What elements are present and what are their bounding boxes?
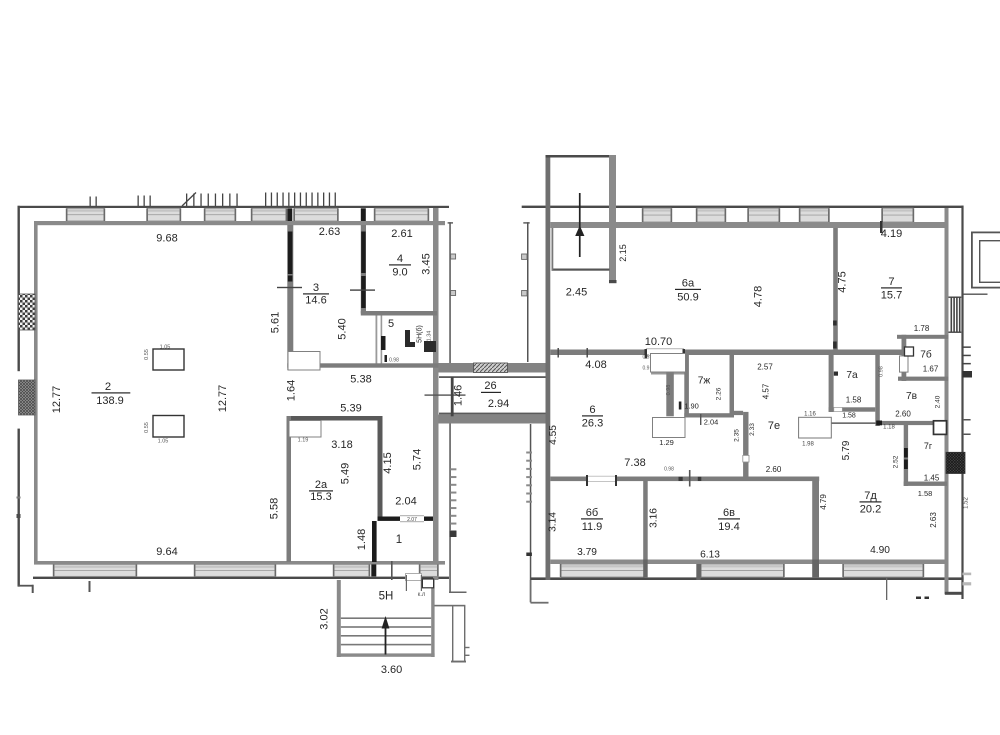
svg-text:2.94: 2.94 <box>488 398 509 410</box>
svg-text:1.46: 1.46 <box>452 385 464 406</box>
svg-text:4.79: 4.79 <box>819 494 828 510</box>
svg-text:7.38: 7.38 <box>624 457 645 469</box>
svg-text:к.л: к.л <box>418 592 426 598</box>
svg-text:5.39: 5.39 <box>340 403 361 415</box>
svg-text:4.90: 4.90 <box>870 545 890 556</box>
svg-text:0.98: 0.98 <box>664 467 674 473</box>
svg-text:7д: 7д <box>864 490 877 502</box>
svg-text:2.57: 2.57 <box>757 363 773 372</box>
svg-text:12.77: 12.77 <box>51 386 63 414</box>
svg-text:0.9: 0.9 <box>643 366 650 372</box>
svg-text:2.60: 2.60 <box>766 465 782 474</box>
svg-text:3.18: 3.18 <box>331 439 352 451</box>
svg-text:1.67: 1.67 <box>923 365 939 374</box>
svg-text:7е: 7е <box>768 420 780 432</box>
svg-text:9.68: 9.68 <box>156 233 177 245</box>
svg-text:1.18: 1.18 <box>883 424 895 430</box>
svg-text:1: 1 <box>396 534 402 546</box>
svg-text:14.6: 14.6 <box>305 295 326 307</box>
svg-text:7: 7 <box>888 276 894 288</box>
svg-text:7г: 7г <box>924 441 933 451</box>
svg-text:1.19: 1.19 <box>298 438 309 444</box>
svg-text:5Н: 5Н <box>379 591 394 603</box>
svg-text:2.15: 2.15 <box>618 244 628 262</box>
svg-text:1.58: 1.58 <box>918 489 933 498</box>
svg-text:20.2: 20.2 <box>860 504 881 516</box>
svg-text:3.02: 3.02 <box>319 608 331 629</box>
svg-text:2.63: 2.63 <box>929 512 938 528</box>
svg-text:6б: 6б <box>586 507 598 519</box>
svg-text:1.34: 1.34 <box>427 331 433 342</box>
svg-text:15.3: 15.3 <box>310 491 331 503</box>
svg-text:1.78: 1.78 <box>914 324 930 333</box>
svg-text:5.58: 5.58 <box>269 498 281 519</box>
svg-text:5.79: 5.79 <box>841 440 852 460</box>
svg-text:4.57: 4.57 <box>762 383 771 399</box>
svg-text:19.4: 19.4 <box>718 521 739 533</box>
svg-text:0.5: 0.5 <box>643 355 650 361</box>
svg-text:2.35: 2.35 <box>734 429 741 442</box>
svg-text:10.70: 10.70 <box>645 336 673 348</box>
svg-text:3.60: 3.60 <box>381 664 402 676</box>
svg-text:4.75: 4.75 <box>837 271 849 292</box>
svg-text:2: 2 <box>105 381 111 393</box>
svg-text:2.60: 2.60 <box>895 410 911 419</box>
svg-text:5.40: 5.40 <box>337 318 349 339</box>
svg-text:7ж: 7ж <box>698 376 711 387</box>
svg-text:9.0: 9.0 <box>392 267 407 279</box>
svg-text:1.05: 1.05 <box>158 439 169 445</box>
svg-text:7б: 7б <box>920 349 932 361</box>
svg-text:1.58: 1.58 <box>842 413 856 420</box>
svg-text:1.29: 1.29 <box>659 438 674 447</box>
svg-text:2.04: 2.04 <box>704 418 719 427</box>
svg-text:6.13: 6.13 <box>700 550 720 561</box>
svg-text:4.55: 4.55 <box>548 425 559 445</box>
svg-text:0.98: 0.98 <box>879 366 885 377</box>
svg-text:11.9: 11.9 <box>582 521 603 533</box>
svg-text:5.38: 5.38 <box>350 374 371 386</box>
svg-text:2.52: 2.52 <box>893 455 900 468</box>
svg-text:50.9: 50.9 <box>677 292 698 304</box>
svg-text:3.79: 3.79 <box>577 547 597 558</box>
svg-text:1.16: 1.16 <box>804 412 816 418</box>
svg-text:2.63: 2.63 <box>319 226 340 238</box>
svg-text:7а: 7а <box>846 370 858 381</box>
svg-text:4: 4 <box>397 253 403 265</box>
svg-text:3.14: 3.14 <box>548 512 559 532</box>
svg-text:9.64: 9.64 <box>156 546 177 558</box>
svg-text:4.19: 4.19 <box>881 228 902 240</box>
svg-text:1.58: 1.58 <box>846 396 862 405</box>
svg-text:138.9: 138.9 <box>96 395 124 407</box>
svg-text:5Н(б): 5Н(б) <box>416 325 424 343</box>
svg-text:1.05: 1.05 <box>160 345 171 351</box>
svg-text:4.08: 4.08 <box>585 359 606 371</box>
svg-text:1.64: 1.64 <box>286 380 298 401</box>
svg-text:5.74: 5.74 <box>412 449 424 470</box>
svg-text:2.45: 2.45 <box>566 287 587 299</box>
svg-text:3.45: 3.45 <box>421 253 433 274</box>
svg-text:1.98: 1.98 <box>802 442 814 448</box>
svg-text:3.16: 3.16 <box>649 508 660 528</box>
svg-text:4.78: 4.78 <box>753 286 765 307</box>
svg-text:2.33: 2.33 <box>749 423 756 436</box>
svg-text:2.61: 2.61 <box>391 228 412 240</box>
svg-text:1.45: 1.45 <box>924 474 940 483</box>
svg-text:1.48: 1.48 <box>356 529 368 550</box>
svg-text:0.55: 0.55 <box>144 349 150 360</box>
svg-text:2.04: 2.04 <box>395 496 416 508</box>
svg-text:2а: 2а <box>315 479 328 491</box>
svg-text:15.7: 15.7 <box>881 290 902 302</box>
svg-text:0.98: 0.98 <box>389 358 399 364</box>
svg-text:0.98: 0.98 <box>666 385 672 396</box>
svg-text:1.90: 1.90 <box>684 402 699 411</box>
svg-text:3: 3 <box>313 282 319 294</box>
svg-text:2.26: 2.26 <box>716 387 723 400</box>
svg-text:26: 26 <box>484 380 496 392</box>
svg-text:2.07: 2.07 <box>407 517 417 523</box>
svg-text:5.61: 5.61 <box>270 312 282 333</box>
svg-text:2.40: 2.40 <box>935 395 942 408</box>
svg-text:6а: 6а <box>682 278 695 290</box>
svg-text:6в: 6в <box>723 507 735 519</box>
svg-text:5: 5 <box>388 318 394 330</box>
svg-text:5.49: 5.49 <box>340 463 352 484</box>
svg-text:6: 6 <box>589 404 595 416</box>
svg-text:0.55: 0.55 <box>144 422 150 433</box>
svg-text:7в: 7в <box>906 391 917 402</box>
svg-text:26.3: 26.3 <box>582 418 603 430</box>
svg-text:12.77: 12.77 <box>217 385 229 413</box>
svg-text:4.15: 4.15 <box>382 452 394 473</box>
svg-text:1.52: 1.52 <box>964 497 970 509</box>
